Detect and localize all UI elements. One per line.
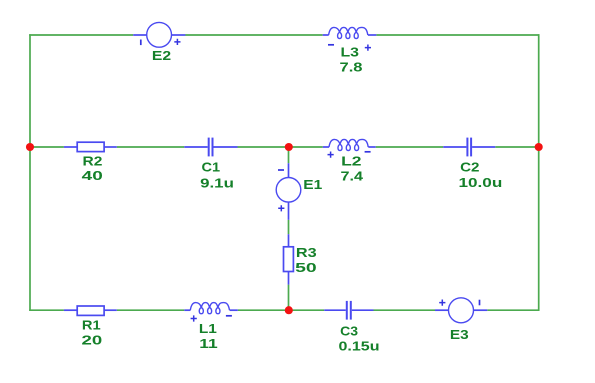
svg-text:0.15u: 0.15u [339,338,380,353]
wire center branch lower [288,285,290,311]
wire bottom 5 [487,309,539,311]
C1 label [202,159,221,174]
wire center branch upper [288,147,290,163]
svg-text:10.0u: 10.0u [459,175,503,190]
node center middle [285,143,293,151]
L3 plus [365,45,371,51]
L1 label [199,321,217,336]
wire middle 1 [29,146,64,148]
svg-text:L2: L2 [341,153,361,168]
E2 plus [174,39,180,45]
voltage source E1 [276,163,301,220]
svg-text:L1: L1 [199,321,217,336]
wire bottom 3 [238,309,324,311]
wire top 1 [29,34,133,36]
E3 label [450,327,469,342]
svg-text:40: 40 [82,168,103,183]
L2 plus [328,152,334,158]
svg-text:50: 50 [295,260,317,275]
E1 minus [278,169,284,171]
L3 minus [328,44,334,46]
wire top 2 [185,34,323,36]
voltage source E2 [133,22,185,47]
L1 minus [226,315,232,317]
wire bottom 2 [117,309,185,311]
svg-text:9.1u: 9.1u [200,176,234,191]
L1 value [199,336,217,351]
resistor R1 [64,306,117,315]
wire left vertical [29,34,31,311]
svg-text:E2: E2 [152,48,171,63]
R1 value [82,333,103,348]
voltage source E3 [435,298,487,323]
svg-text:7.8: 7.8 [340,60,363,75]
inductor L1 [184,303,238,314]
L3 value [340,60,363,75]
capacitor C1 [184,138,237,157]
svg-text:C1: C1 [202,159,221,174]
L2 minus [365,151,371,153]
E2 minus tick [140,40,142,46]
svg-text:R1: R1 [82,317,101,332]
R1 label [82,317,101,332]
E3 plus [439,300,445,306]
svg-text:C3: C3 [340,324,358,339]
C1 value [200,176,234,191]
wire bottom 4 [374,309,436,311]
capacitor C3 [324,301,373,320]
R2 label [83,153,103,168]
svg-text:C2: C2 [460,160,479,175]
wire right vertical [538,34,540,311]
resistor R2 [64,142,117,151]
L1 plus [191,315,197,321]
node right middle [535,143,543,151]
wire center branch mid [288,220,290,234]
C2 label [460,160,479,175]
node left middle [26,143,34,151]
wire bottom 1 [29,309,64,311]
svg-text:11: 11 [199,336,217,351]
wire middle 5 [495,146,539,148]
wire middle 3 [238,146,323,148]
node center bottom [285,306,293,314]
svg-text:L3: L3 [341,45,360,60]
inductor L3 [323,27,377,38]
svg-text:E1: E1 [303,177,322,192]
resistor R3 [284,234,294,284]
svg-text:R3: R3 [296,245,317,260]
E2 label [152,48,171,63]
R3 label [296,245,317,260]
C3 label [340,324,358,339]
wire top 3 [376,34,539,36]
R3 value [295,260,317,275]
wire middle 4 [376,146,444,148]
L2 label [341,153,361,168]
svg-text:E3: E3 [450,327,469,342]
L2 value [341,168,364,183]
wire middle 2 [117,146,185,148]
C3 value [339,338,380,353]
E1 plus [278,205,284,211]
svg-text:20: 20 [82,333,103,348]
E1 label [303,177,322,192]
svg-text:R2: R2 [83,153,103,168]
E3 minus tick [479,300,481,306]
C2 value [459,175,503,190]
capacitor C2 [443,138,495,157]
inductor L2 [323,139,376,150]
L3 label [341,45,360,60]
svg-text:7.4: 7.4 [341,168,364,183]
R2 value [82,168,103,183]
